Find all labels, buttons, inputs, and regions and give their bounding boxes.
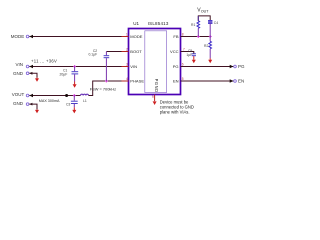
svg-text:4: 4 xyxy=(126,77,128,81)
capacitor C3 (output) xyxy=(71,96,78,108)
capacitor C2 (bootstrap) xyxy=(104,52,110,82)
capacitor C1 xyxy=(72,67,79,82)
terminal VIN xyxy=(15,62,33,68)
svg-text:5: 5 xyxy=(182,77,184,81)
svg-text:6: 6 xyxy=(182,62,184,66)
svg-text:PHASE: PHASE xyxy=(130,79,144,84)
terminal GND (lower) xyxy=(13,101,32,106)
pin stub 7 VCC xyxy=(181,47,188,51)
pin stub 9 PGND xyxy=(152,95,155,102)
svg-text:VOUT: VOUT xyxy=(12,92,25,97)
svg-text:EN: EN xyxy=(238,79,244,84)
ground (C5) xyxy=(192,56,196,63)
label MAX 300mA xyxy=(39,99,60,103)
label C4 xyxy=(214,21,218,25)
svg-text:VIN: VIN xyxy=(130,64,137,69)
pin name PHASE xyxy=(130,79,144,84)
capacitor C5 (VCC decoupling) xyxy=(192,54,196,56)
pin stub 6 PG xyxy=(181,62,188,66)
svg-text:U1: U1 xyxy=(133,21,139,26)
svg-text:R1: R1 xyxy=(191,23,195,27)
node FB-R2 junction xyxy=(209,35,212,38)
terminal MODE xyxy=(11,34,33,39)
inductor L1 xyxy=(81,94,89,95)
svg-text:C4: C4 xyxy=(214,21,218,25)
resistor R2 xyxy=(209,37,212,59)
value label C3 xyxy=(66,102,70,106)
svg-text:MODE: MODE xyxy=(130,34,142,39)
pin stub 3 VIN xyxy=(122,62,129,66)
svg-text:C3: C3 xyxy=(66,102,70,106)
svg-text:MAX 300mA: MAX 300mA xyxy=(39,99,60,103)
value label C1 20uF xyxy=(60,69,68,77)
node PHASE junction (boot cap tap) xyxy=(105,80,108,83)
svg-text:R2: R2 xyxy=(204,44,208,48)
value label C2 0.1uF xyxy=(88,49,97,56)
wire VOUT net xyxy=(29,95,80,97)
capacitor C4 (feedforward) xyxy=(208,20,212,36)
label R2 xyxy=(204,44,208,48)
pin stub 8 FB xyxy=(181,32,188,36)
pin stub 1 MODE xyxy=(122,32,129,36)
node junction dot on VOUT wire xyxy=(65,94,68,97)
label L1 xyxy=(83,99,87,103)
pin name FB xyxy=(173,34,178,39)
svg-text:FB: FB xyxy=(173,34,178,39)
svg-text:8: 8 xyxy=(182,32,184,36)
svg-text:PG: PG xyxy=(173,64,179,69)
ground (C1) xyxy=(73,82,77,88)
pin name MODE xyxy=(130,34,142,39)
svg-text:20µF: 20µF xyxy=(60,73,68,77)
svg-text:VCC: VCC xyxy=(170,49,179,54)
svg-text:FSW = 700kHz: FSW = 700kHz xyxy=(90,87,116,92)
svg-text:1µF: 1µF xyxy=(186,53,192,57)
resistor R1 xyxy=(197,16,200,37)
svg-text:9: 9 xyxy=(152,95,154,99)
pin stub 5 EN xyxy=(181,77,188,81)
svg-text:MODE: MODE xyxy=(11,34,25,39)
ground (upper GND terminal) xyxy=(35,78,39,82)
note text xyxy=(160,99,194,114)
svg-text:2: 2 xyxy=(126,47,128,51)
pin name BOOT xyxy=(130,49,142,54)
pin name EN xyxy=(173,79,179,84)
label R1 xyxy=(191,23,195,27)
node VOUT junction (output cap tap) xyxy=(73,94,76,97)
svg-text:EN: EN xyxy=(173,79,179,84)
wire VCC net xyxy=(181,52,194,54)
pin stub 2 BOOT xyxy=(122,47,129,51)
wire PG net xyxy=(181,66,234,68)
svg-text:L1: L1 xyxy=(83,99,87,103)
op-amp U1 ISL85413 box xyxy=(129,21,181,95)
svg-text:+11 ... +36V: +11 ... +36V xyxy=(31,59,57,64)
pin name PG xyxy=(173,64,179,69)
pin name VIN xyxy=(130,64,137,69)
pin name VCC xyxy=(170,49,179,54)
svg-text:VIN: VIN xyxy=(15,62,23,67)
svg-text:7: 7 xyxy=(183,47,185,51)
svg-text:1: 1 xyxy=(126,32,128,36)
svg-text:GND: GND xyxy=(13,71,24,76)
wire FB net xyxy=(181,36,211,38)
wire VOUT top rail xyxy=(198,16,210,21)
pin stub 4 PHASE xyxy=(122,77,129,81)
svg-text:GND: GND xyxy=(13,101,24,106)
svg-text:BOOT: BOOT xyxy=(130,49,142,54)
wire BOOT net xyxy=(106,51,128,53)
node FB-R1 junction xyxy=(197,35,200,38)
svg-text:ISL85413: ISL85413 xyxy=(148,21,169,26)
svg-text:3: 3 xyxy=(126,62,128,66)
wire PHASE net (L1 to pin 4) xyxy=(89,81,129,96)
terminal GND (upper) xyxy=(13,71,32,76)
wire VIN net xyxy=(29,66,128,68)
svg-text:OUT: OUT xyxy=(201,9,209,13)
ground (PGND pin) xyxy=(153,101,157,105)
terminal VOUT xyxy=(12,92,33,97)
svg-text:0.1µF: 0.1µF xyxy=(88,52,97,56)
ground (C3) xyxy=(72,107,76,113)
label VOUT (top right) xyxy=(197,8,209,14)
pin name PGND (vertical) xyxy=(154,79,159,93)
svg-text:plane with VIAs.: plane with VIAs. xyxy=(160,109,190,114)
wire GND (upper) elbow xyxy=(29,73,37,77)
wire EN net xyxy=(181,80,234,82)
node VIN junction xyxy=(73,65,76,68)
label +11 ... +36V xyxy=(31,59,57,64)
svg-text:PG: PG xyxy=(238,64,245,69)
ground (lower GND terminal) xyxy=(35,109,39,113)
wire GND (lower) elbow xyxy=(29,104,37,109)
label FSW = 700kHz xyxy=(90,87,116,92)
svg-text:PGND: PGND xyxy=(154,79,159,93)
ground (R2) xyxy=(208,58,212,63)
value label C5 1uF xyxy=(186,49,192,57)
terminal PG xyxy=(230,64,245,69)
wire MODE net xyxy=(29,36,128,38)
terminal EN xyxy=(230,79,245,84)
